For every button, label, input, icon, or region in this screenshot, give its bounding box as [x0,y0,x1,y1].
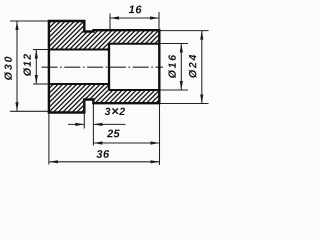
dim phi24: arrow up [200,31,203,40]
dim 36: extension line left [48,114,50,165]
svg-text:Ø24: Ø24 [187,53,199,78]
dim phi16: arrow up [180,44,183,53]
dim 25: dimension line [93,142,159,144]
dim phi24: dimension line [201,31,203,104]
section hatching: lower wall [49,84,159,113]
dim 3x2: right leader with arrow [93,123,125,125]
bore phi12 top edge [49,49,109,51]
dim phi30: dimension line [16,21,18,111]
dim phi30: arrow down [15,102,18,111]
dim 16: arrow right [150,16,159,19]
dim phi16: dimension line [180,44,182,91]
dim 36: arrow right [151,160,160,163]
dim 16: arrow left [110,16,119,19]
svg-text:Ø12: Ø12 [22,53,34,76]
svg-text:25: 25 [106,128,120,140]
dim 36: extension line right (shared) [159,104,161,165]
svg-text:3×2: 3×2 [105,103,126,118]
dim phi24: arrow down [200,95,203,104]
dim phi24: extension line bottom [161,103,209,105]
part outer profile (thick) [49,21,159,113]
dim 36: dimension line [49,161,160,163]
dim 25: arrow left [93,141,102,144]
dim phi12: dimension line [35,50,37,85]
dim 3x2: extension line right [92,104,94,146]
dim 16: dimension line [110,17,159,19]
svg-text:36: 36 [96,149,110,161]
dim phi12: extension line bottom [33,83,49,85]
dim phi30: extension line bottom [10,110,48,112]
dim 16: extension line right [158,12,160,29]
dim phi16: extension line bottom [161,89,189,91]
dim 3x2: extension line left [83,114,85,129]
dim phi16: extension line top [161,43,189,45]
dim 36: arrow left [49,160,58,163]
svg-text:16: 16 [129,4,143,16]
dim phi12: arrow down [35,75,38,84]
bore phi16 bottom edge [109,89,159,91]
centerline (part axis) [42,66,164,68]
dim phi30: arrow up [15,21,18,30]
svg-text:Ø16: Ø16 [167,53,179,78]
dim phi30: extension line top [10,20,48,22]
dim 25: arrow right [151,141,160,144]
bore phi16 top edge [109,43,159,45]
dim phi16: arrow down [180,81,183,90]
section hatching: upper wall [49,21,159,50]
svg-text:Ø30: Ø30 [3,54,15,80]
dim phi24: extension line top [161,30,209,32]
dim phi12: arrow up [35,50,38,59]
dim 16: extension line left [109,14,111,32]
dim phi12: extension line top [33,49,49,51]
bore phi12 bottom edge [49,83,109,85]
bore step face [108,44,110,90]
dim 3x2: left leader with arrow [68,123,84,125]
